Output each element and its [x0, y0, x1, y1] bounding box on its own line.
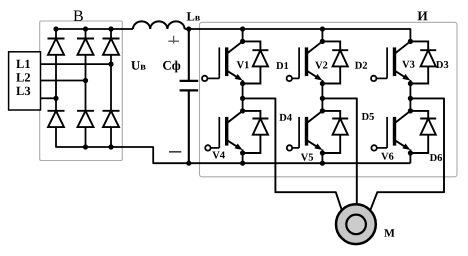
- node: D6 return on emitter: [408, 150, 413, 155]
- rectifier diode bottom 2: [77, 111, 94, 127]
- node: leg B on plus rail: [320, 26, 325, 31]
- rectifier diode top 1: [48, 39, 65, 55]
- label V1: [237, 61, 249, 68]
- wire: V3 emitter down to phase node: [409, 80, 411, 111]
- label L1: [16, 60, 30, 68]
- label D3: [436, 61, 448, 68]
- diode D6: [410, 111, 436, 153]
- minus sign: [169, 151, 181, 153]
- label Сф: [163, 61, 180, 73]
- wire: phase A output to motor (left lead): [243, 98, 342, 210]
- capacitor Сф: [180, 29, 199, 163]
- label D1: [276, 62, 288, 69]
- wire: V1 emitter down to phase node: [242, 80, 244, 111]
- transistor V4 (IGBT): [205, 111, 242, 151]
- node: collector split of V5: [320, 108, 325, 113]
- label V4: [212, 152, 225, 159]
- node: leg B on minus rail: [320, 161, 325, 166]
- wire: rectifier column 1 middle: [55, 55, 57, 111]
- wire: rectifier top bus to inductor: [56, 29, 133, 39]
- label D5: [362, 113, 374, 120]
- wire: dc plus rail from inductor to inverter: [185, 29, 411, 41]
- diode D1: [243, 41, 269, 83]
- label M: [384, 229, 394, 237]
- wire: phase L1 to column 3, node: [41, 63, 112, 65]
- rectifier block B outline box: [40, 21, 123, 161]
- wire: rectifier bottom bus with step down to dc minus rail: [56, 128, 200, 164]
- label D2: [355, 62, 367, 69]
- label Lв: [187, 12, 200, 20]
- node: phase output C: [408, 96, 413, 101]
- wire: leg A plus rail to collector split: [242, 29, 244, 41]
- rectifier diode top 3: [103, 39, 120, 55]
- label V5: [301, 154, 313, 161]
- diode D3: [410, 41, 436, 83]
- rectifier diode top 2: [77, 39, 94, 55]
- motor M: [336, 204, 376, 244]
- label D6: [430, 154, 442, 161]
- wire: rectifier column 2 top connection: [85, 29, 87, 39]
- label V6: [381, 153, 393, 160]
- node: capacitor on plus rail: [186, 26, 191, 31]
- node: phase output A: [240, 96, 245, 101]
- node: collector split of V4: [240, 108, 245, 113]
- wire: phase L3 to column 1, node: [41, 97, 57, 99]
- diode D4: [243, 111, 269, 153]
- node: D3 return on emitter: [408, 81, 413, 86]
- node: phase output B: [320, 96, 325, 101]
- three-phase supply box L1 L2 L3: [9, 52, 41, 110]
- node: collector split of V2: [320, 39, 325, 44]
- node: D5 return on emitter: [320, 150, 325, 155]
- inverter block И outline box: [200, 22, 458, 177]
- wire: rectifier column 3 bottom connection: [110, 127, 112, 147]
- label D4: [279, 114, 291, 121]
- transistor V3 (IGBT): [371, 41, 410, 81]
- node: capacitor on minus rail: [186, 161, 191, 166]
- rectifier diode bottom 1: [48, 111, 65, 127]
- transistor V2 (IGBT): [287, 41, 323, 81]
- wire: dc minus rail across inverter: [200, 162, 411, 164]
- wire: leg B plus rail to collector split: [321, 29, 323, 41]
- label В (rectifier block): [74, 11, 83, 22]
- wire: rectifier column 3 middle: [110, 55, 112, 111]
- transistor V6 (IGBT): [371, 111, 410, 151]
- node: collector split of V6: [408, 108, 413, 113]
- wire: phase C output to motor (right lead): [370, 98, 444, 210]
- wire: phase B output to motor (centre lead): [322, 98, 356, 204]
- wire: rectifier column 2 middle: [85, 55, 87, 111]
- rectifier diode bottom 3: [103, 111, 120, 127]
- transistor V1 (IGBT): [202, 41, 243, 81]
- node: collector split of V1: [240, 39, 245, 44]
- inductor Lв (filter choke): [133, 21, 185, 29]
- wire: phase L2 to column 2, node: [41, 80, 86, 82]
- transistor V5 (IGBT): [287, 111, 323, 151]
- label Uв: [131, 61, 145, 70]
- wire: V2 emitter down to phase node: [321, 80, 323, 111]
- label И (inverter block): [418, 12, 428, 21]
- wire: V5 emitter down to minus rail: [321, 149, 323, 163]
- node: D2 return on emitter: [320, 81, 325, 86]
- node: D4 return on emitter: [240, 150, 245, 155]
- wire: rectifier column 3 top connection: [110, 29, 112, 39]
- wire: V6 emitter down to minus rail: [409, 149, 411, 163]
- node: D1 return on emitter: [240, 81, 245, 86]
- label V3: [402, 61, 414, 68]
- label V2: [315, 62, 327, 69]
- label L2: [16, 73, 30, 81]
- node: leg A on minus rail: [240, 161, 245, 166]
- wire: V4 emitter down to minus rail: [242, 149, 244, 163]
- plus sign: [168, 36, 179, 44]
- junction dots on rectifier buses: [53, 26, 113, 149]
- wire: rectifier column 2 bottom connection: [85, 127, 87, 147]
- diode D5: [322, 111, 348, 153]
- diode D2: [322, 41, 348, 83]
- node: leg A on plus rail: [240, 26, 245, 31]
- label L3: [16, 87, 30, 95]
- node: collector split of V3: [408, 39, 413, 44]
